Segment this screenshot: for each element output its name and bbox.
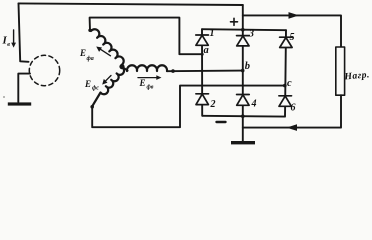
junction dot minus bus [241,114,245,118]
diode 3 [237,36,250,46]
svg-text:c: c [287,78,292,89]
EMF arrow Eфа [96,47,110,56]
rotor field winding (dashed circle) [29,55,59,85]
junction dot plus bus [241,28,245,32]
wire left vertical field lead [19,3,29,61]
svg-text:Нагр.: Нагр. [343,69,370,82]
winding Eфа [91,29,124,65]
svg-text:2: 2 [210,99,216,110]
diode 5 [280,37,293,47]
bridge leg c wire [285,30,286,116]
minus terminal symbol [217,121,226,123]
svg-text:4: 4 [251,99,257,110]
wire phase a lead (upper rectangle to node a) [90,18,203,55]
junction dot coil b end [171,69,175,73]
current arrow to load [289,12,300,19]
star point [119,64,124,69]
svg-text:a: a [204,45,209,56]
bridge minus bus [203,115,285,118]
junction dot coil c bottom [90,105,94,109]
EMF arrow Eфв [138,75,162,80]
node c junction dot [283,84,287,88]
wire plus output to load [243,15,341,47]
load resistor Нагр. [336,47,345,95]
wire minus to ground [242,116,244,141]
label Eфс [84,79,99,92]
svg-text:1: 1 [210,28,215,39]
wire top bus from field terminal to rectifier plus [19,3,243,5]
bridge plus bus [202,29,286,30]
svg-text:6: 6 [291,103,296,114]
ground bottom [231,141,255,144]
svg-text:3: 3 [248,29,254,40]
ground left [8,102,31,105]
junction dot coil a top [88,29,91,32]
node a junction dot [201,53,204,56]
diode 2 [196,94,209,105]
winding Eфв [127,65,167,71]
wire load return to minus [243,95,341,127]
svg-text:фв: фв [147,84,154,91]
svg-text:b: b [245,61,250,72]
wire star to winding b [122,67,128,71]
return current arrow [287,124,298,131]
paper speck [3,96,5,98]
svg-text:E: E [79,48,86,58]
svg-text:E: E [84,79,91,89]
winding Eфс [92,67,124,106]
bridge leg b wire [242,30,244,116]
diode 6 [279,96,292,107]
svg-text:фс: фс [92,85,99,92]
label Iв [2,35,11,49]
wire phase b lead to node b [167,70,243,73]
diode 1 [196,35,209,45]
node b junction dot [241,69,245,73]
svg-text:E: E [139,78,146,88]
label Eфв [139,78,154,91]
svg-text:5: 5 [290,32,295,43]
plus terminal symbol [231,18,238,25]
current arrow Iв [11,30,16,48]
wire vertical drop to plus bus [242,5,244,30]
bridge leg a wire [201,29,203,116]
label Eфа [79,48,94,62]
wire lower brush lead [18,74,30,102]
svg-text:в: в [7,42,10,48]
wire phase c lead (lower rectangle to node c) [92,86,285,128]
diode 4 [237,95,250,106]
svg-text:фа: фа [87,55,94,62]
EMF arrow Eфс [102,76,111,85]
